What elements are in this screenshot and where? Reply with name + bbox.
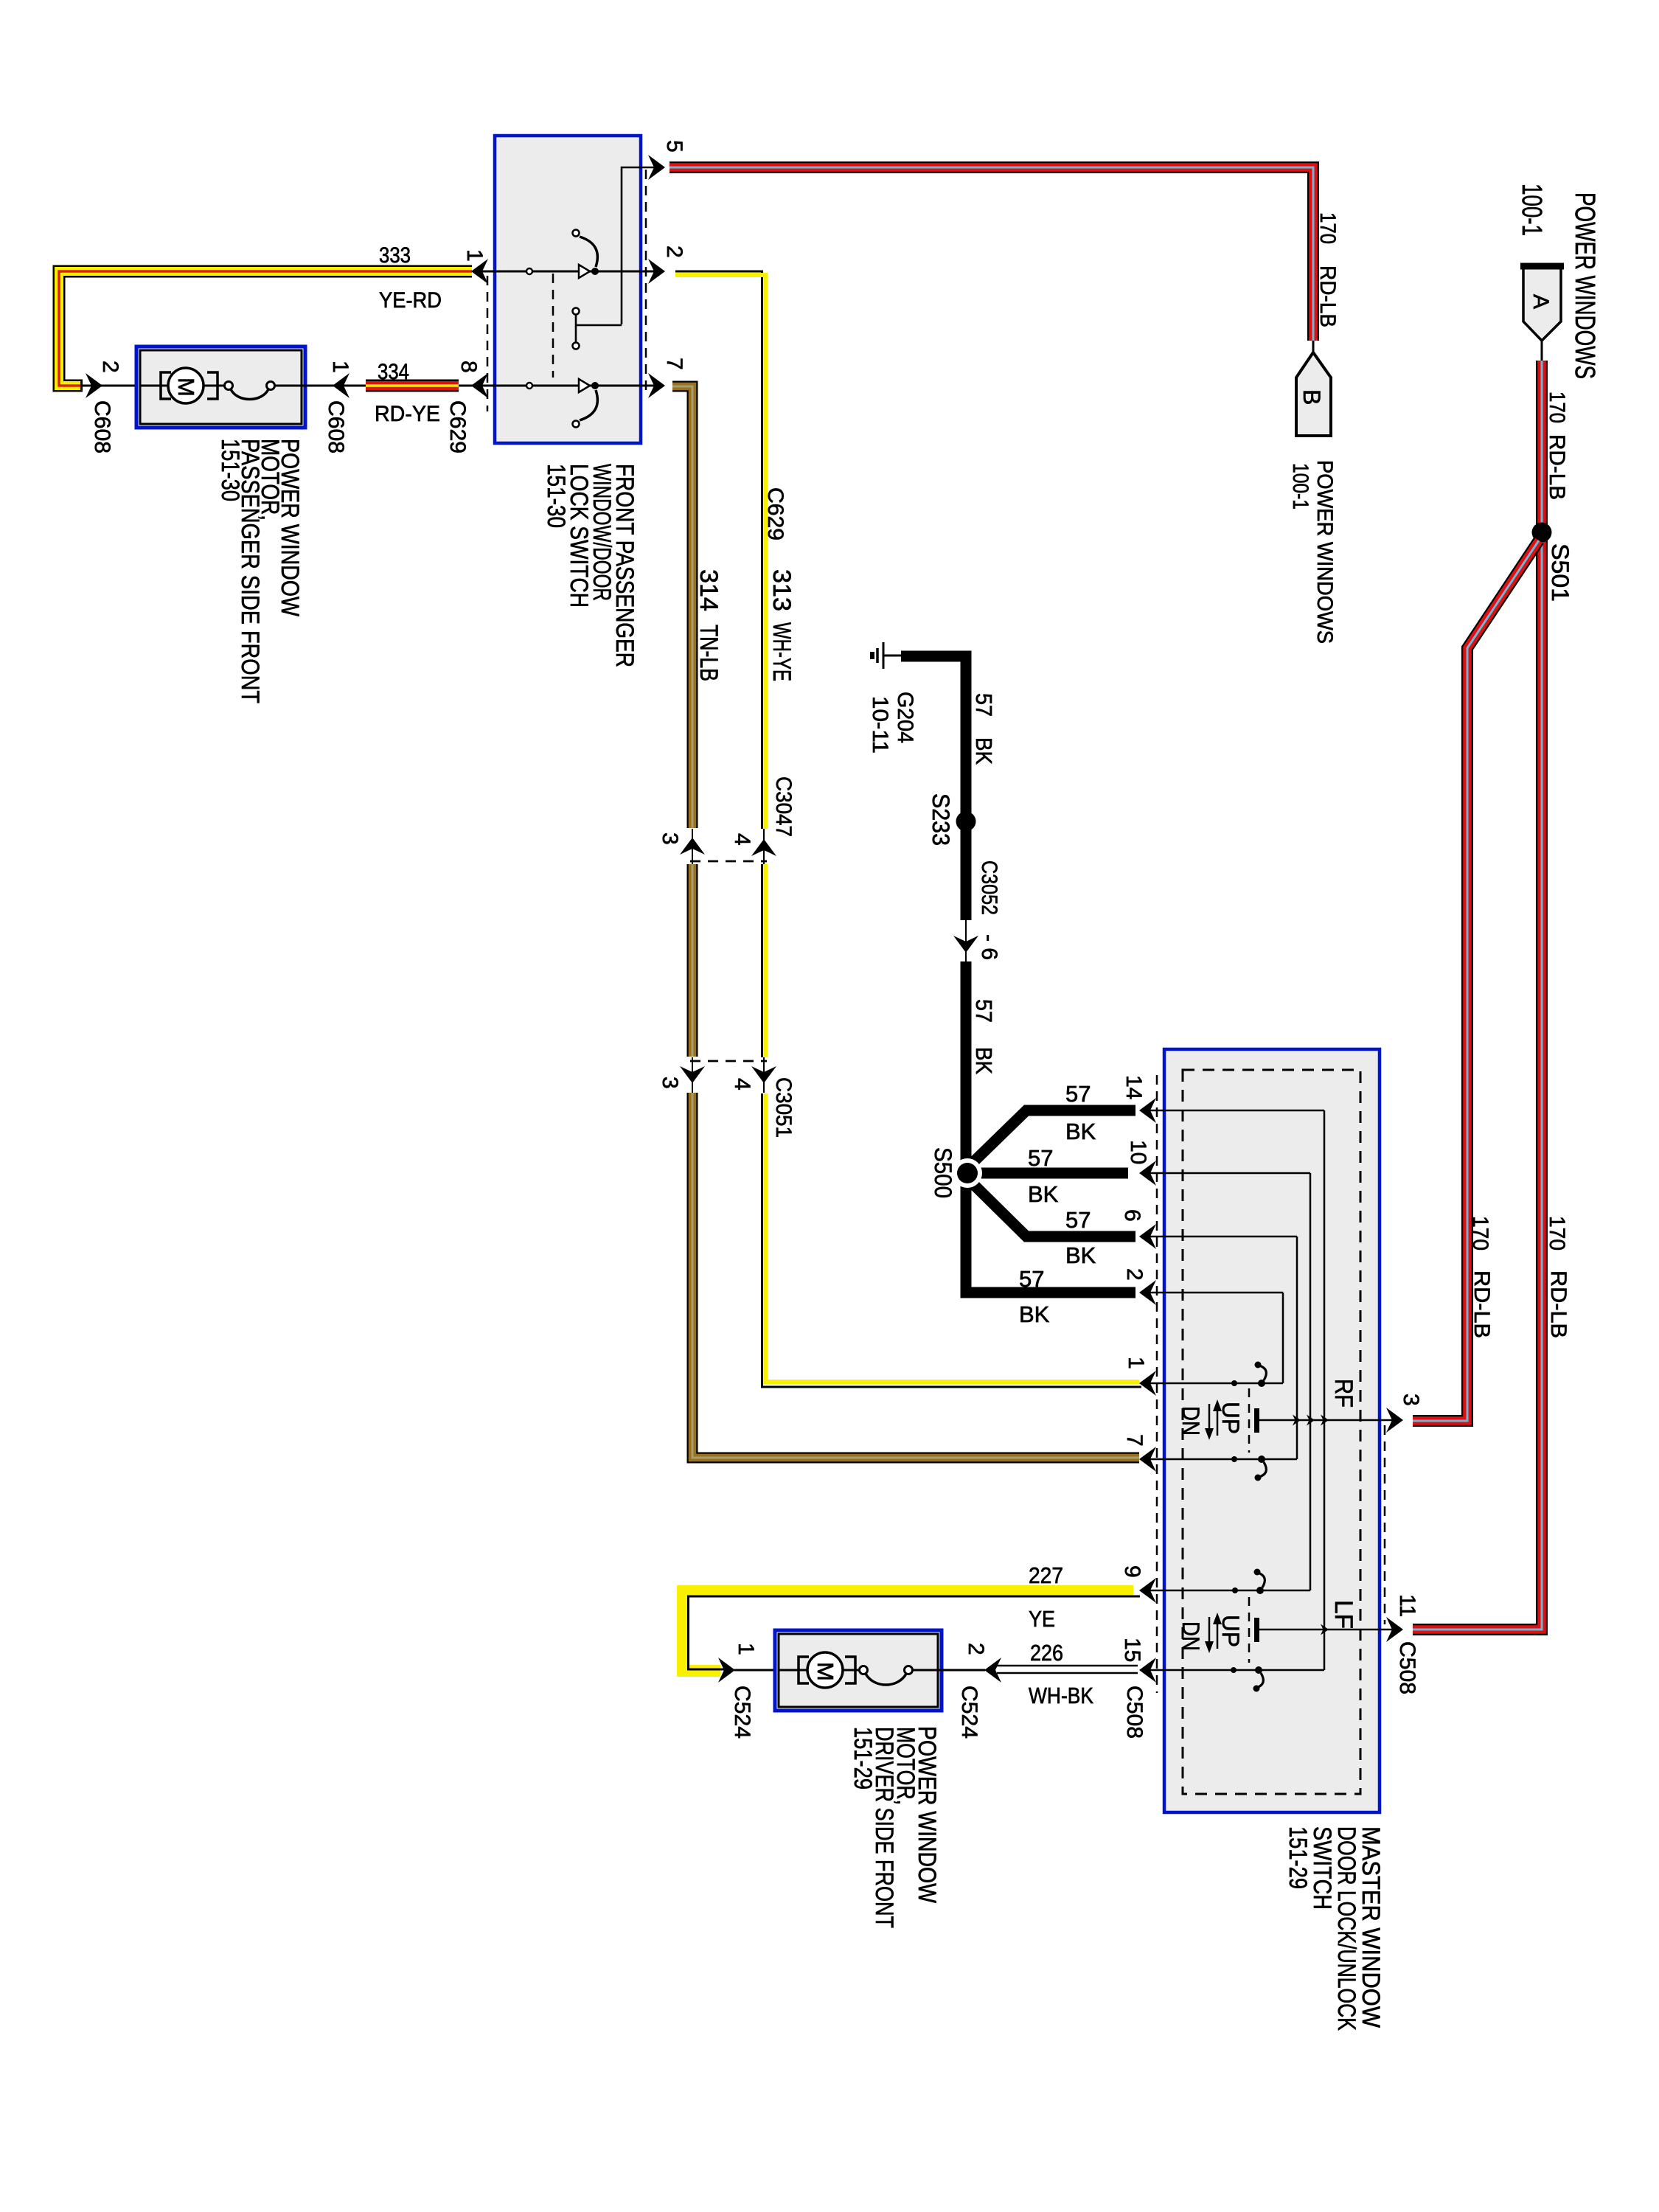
master window door lock/unlock switch box — [1164, 1049, 1380, 1812]
svg-text:1: 1 — [734, 1643, 758, 1655]
pin7 arrow — [1139, 1447, 1156, 1472]
label POWER WINDOWS 100-1 (B) — [1288, 460, 1337, 644]
internal vertical pin10 to row9 — [1310, 1173, 1312, 1590]
wire 314 TN-LB — [672, 386, 1139, 1458]
wire 57 BK to pin6 — [970, 1181, 1135, 1237]
pin14 row line — [1147, 1110, 1324, 1112]
wire row pin1-pin2 — [476, 271, 661, 273]
svg-text:BK: BK — [1028, 1181, 1059, 1207]
RF UP arrow — [1213, 1399, 1222, 1436]
svg-text:314: 314 — [695, 569, 723, 611]
RF row1 contact dot — [1231, 1380, 1237, 1386]
RF row1 arc contact dot — [1255, 1362, 1262, 1368]
RF row7 line — [1147, 1458, 1297, 1461]
splice S233 — [956, 812, 976, 832]
svg-text:C608: C608 — [324, 400, 348, 453]
connector C3047 — [680, 829, 776, 864]
svg-text:UP: UP — [1217, 1615, 1244, 1647]
wire line 334 to C629 pin8 — [459, 385, 487, 387]
connector C629 pin2 arrow — [648, 259, 665, 284]
pin3 arrow — [1386, 1408, 1403, 1433]
svg-text:RD-YE: RD-YE — [375, 402, 440, 426]
motor bracket right driver — [845, 1657, 855, 1683]
connector C3051 — [680, 1057, 776, 1093]
svg-text:10-11: 10-11 — [868, 696, 892, 754]
wiper pivot row1 — [591, 268, 599, 275]
svg-text:15: 15 — [1120, 1638, 1144, 1662]
LF common contact bar — [1254, 1618, 1259, 1642]
wire row line motor to C608 pin1 — [83, 385, 369, 387]
svg-text:170: 170 — [1545, 1216, 1569, 1251]
motor wire segments inside box — [140, 385, 169, 387]
contact circle on row2 — [526, 383, 532, 389]
wire row pin8-pin7 — [476, 385, 661, 387]
svg-text:C608: C608 — [90, 400, 114, 453]
svg-text:226: 226 — [1030, 1640, 1063, 1666]
svg-text:3: 3 — [1399, 1394, 1423, 1406]
svg-text:1: 1 — [1124, 1357, 1148, 1369]
svg-text:100-1: 100-1 — [1288, 463, 1312, 509]
motor brush arc — [231, 389, 268, 400]
svg-text:RD-LB: RD-LB — [1545, 434, 1569, 500]
LF mechanical dashed link — [1248, 1597, 1251, 1663]
svg-text:170: 170 — [1545, 392, 1569, 423]
svg-text:RD-LB: RD-LB — [1315, 265, 1340, 327]
LF switch row9 line — [1147, 1590, 1310, 1592]
switch mechanical dashed link — [552, 274, 554, 378]
svg-text:6: 6 — [1120, 1209, 1144, 1222]
svg-text:9: 9 — [1120, 1565, 1144, 1578]
svg-text:G204: G204 — [893, 692, 917, 743]
label G204 10-11 — [868, 692, 917, 754]
wire 334 RD-YE — [366, 380, 459, 392]
wire 57 BK to pin10 — [970, 1168, 1128, 1179]
motor terminal circles driver — [860, 1666, 868, 1674]
wiper pivot row2 — [591, 382, 599, 389]
svg-text:10: 10 — [1126, 1140, 1150, 1164]
connector B pentagon — [1296, 352, 1331, 436]
svg-text:BK: BK — [1019, 1301, 1050, 1327]
SECTION: top right power feed — [669, 167, 1600, 1630]
connector C629 pin1 arrow — [471, 259, 488, 284]
RF common contact bar — [1254, 1408, 1259, 1433]
passenger motor label block — [216, 439, 304, 703]
svg-text:C508: C508 — [1395, 1641, 1419, 1694]
SECTION: ground and splices — [868, 642, 1135, 1327]
internal vertical pin14 to row15 — [1324, 1110, 1326, 1670]
pin6 row line — [1147, 1236, 1297, 1238]
connector B stem — [1312, 341, 1315, 354]
label 57 BK (upper) — [971, 693, 997, 765]
fp switch label block — [542, 464, 639, 667]
RF row7 contact dot — [1231, 1456, 1237, 1462]
driver motor box — [775, 1630, 942, 1711]
motor M circle driver — [807, 1652, 843, 1688]
svg-text:C508: C508 — [1122, 1686, 1147, 1739]
svg-text:C3047: C3047 — [771, 776, 796, 837]
svg-text:7: 7 — [1122, 1434, 1147, 1447]
connector A pentagon — [1520, 266, 1564, 341]
connector C508 dashed line right — [1384, 1425, 1386, 1624]
LF row9 wiper arc — [1258, 1573, 1265, 1587]
connector C524 pin2 arrow — [984, 1658, 1001, 1683]
wire 333 YE-RD from C629 pin1 to motor pin2 — [59, 271, 472, 386]
driver motor label block — [849, 1726, 941, 1928]
power contact circle lower — [573, 343, 580, 349]
motor terminal circles — [225, 382, 233, 390]
pin14 arrow — [1139, 1098, 1156, 1123]
wire line into driver motor box — [734, 1669, 808, 1672]
svg-text:A: A — [1528, 294, 1553, 309]
connector C608 pin1 arrow — [333, 373, 349, 398]
svg-text:C3052: C3052 — [977, 860, 1001, 915]
LF row15 arc contact dot — [1253, 1686, 1260, 1692]
RF row1 pivot dot — [1258, 1380, 1265, 1387]
svg-text:14: 14 — [1121, 1075, 1146, 1099]
SECTION: driver motor — [683, 1562, 1140, 1928]
svg-text:S233: S233 — [928, 793, 954, 846]
svg-text:5: 5 — [662, 140, 686, 153]
RF feed crossover ticks — [1293, 1415, 1301, 1426]
label 57 BK pin6 — [1065, 1207, 1096, 1268]
pin2 row line — [1147, 1292, 1283, 1294]
svg-text:170: 170 — [1315, 212, 1340, 244]
splice S501 — [1532, 523, 1552, 543]
pin1 arrow — [1139, 1371, 1156, 1396]
svg-text:313: 313 — [768, 569, 796, 611]
contact circle on row1 — [526, 268, 532, 274]
svg-text:BK: BK — [1065, 1119, 1096, 1144]
svg-text:2: 2 — [98, 361, 122, 373]
svg-text:- 6: - 6 — [977, 934, 1001, 960]
RF row7 arc contact dot — [1255, 1475, 1262, 1481]
wire 227 YE pin9 to driver motor — [683, 1591, 1140, 1671]
wire 57 BK C3052 to S500 — [961, 961, 972, 1180]
motor M circle passenger — [168, 368, 204, 403]
motor wire segments inside driver box — [779, 1669, 808, 1672]
connector C608 pin2 arrow — [86, 373, 102, 398]
svg-text:100-1: 100-1 — [1516, 184, 1547, 236]
svg-text:B: B — [1298, 389, 1325, 405]
pin10 arrow — [1139, 1161, 1156, 1186]
pin5 internal line — [622, 167, 661, 324]
SECTION: master switch — [1120, 1049, 1423, 2031]
svg-text:151-29: 151-29 — [849, 1727, 877, 1790]
svg-text:C524: C524 — [730, 1686, 754, 1739]
LF row15 pivot dot — [1255, 1666, 1262, 1674]
connector C629 pin7 arrow — [648, 373, 665, 398]
RF DN arrow — [1205, 1404, 1214, 1440]
svg-text:57: 57 — [1065, 1081, 1091, 1107]
RF row7 pivot dot — [1258, 1455, 1265, 1463]
svg-text:DN: DN — [1178, 1621, 1204, 1651]
splice S500 — [953, 1158, 982, 1188]
SECTION: passenger area — [59, 243, 488, 703]
pin15 arrow — [1139, 1658, 1156, 1683]
svg-text:57: 57 — [971, 693, 997, 717]
connector C629 dashed line left — [487, 276, 489, 411]
svg-text:151-29: 151-29 — [1284, 1826, 1312, 1889]
front passenger window/door lock switch box — [495, 136, 641, 443]
svg-text:333: 333 — [379, 243, 411, 268]
svg-text:WH-BK: WH-BK — [1029, 1683, 1093, 1708]
contact circle lower — [573, 421, 580, 428]
connector C508 dashed line left — [1156, 1075, 1158, 1693]
label 57 BK pin2 — [1019, 1266, 1050, 1327]
wire 313 WH-YE black line — [675, 271, 1141, 1387]
svg-text:POWER WINDOWS: POWER WINDOWS — [1569, 192, 1600, 379]
power contact stack link — [576, 324, 622, 327]
wiper arc row2 — [580, 390, 597, 420]
wire 57 BK to pin2 — [966, 1173, 1135, 1293]
pin9 arrow — [1139, 1578, 1156, 1603]
wire 170 RD-LB from A down to pin11 — [1413, 361, 1542, 1630]
LF row15 wiper arc — [1256, 1673, 1263, 1688]
svg-text:4: 4 — [730, 1078, 754, 1091]
motor brush arc driver — [866, 1674, 906, 1685]
svg-text:57: 57 — [971, 999, 997, 1023]
svg-text:7: 7 — [662, 358, 686, 370]
RF switch row1 line — [1147, 1382, 1283, 1385]
wire 57 BK ground to C3052 — [901, 656, 966, 920]
connector A stem — [1541, 341, 1543, 361]
svg-text:UP: UP — [1217, 1402, 1244, 1434]
svg-text:C524: C524 — [957, 1686, 981, 1739]
svg-text:57: 57 — [1028, 1145, 1053, 1171]
svg-text:1: 1 — [462, 249, 487, 262]
contact circle upper — [573, 230, 580, 237]
RF row7 wiper arc — [1259, 1462, 1266, 1477]
pin11 arrow — [1386, 1617, 1403, 1642]
svg-text:8: 8 — [456, 361, 481, 373]
svg-text:DN: DN — [1178, 1406, 1204, 1436]
label 57 BK pin14 — [1065, 1081, 1096, 1144]
RF mechanical dashed link — [1248, 1388, 1251, 1453]
pin6 arrow — [1139, 1224, 1156, 1249]
wiper arc row1 — [580, 237, 597, 267]
ground symbol G204 — [870, 642, 902, 669]
svg-text:YE-RD: YE-RD — [379, 288, 442, 313]
label 57 BK pin10 — [1028, 1145, 1059, 1207]
master switch label block — [1284, 1826, 1385, 2031]
svg-text:BK: BK — [971, 737, 997, 765]
connector C3052 — [953, 920, 978, 961]
svg-text:C3051: C3051 — [771, 1077, 796, 1138]
svg-text:2: 2 — [1122, 1268, 1147, 1281]
connector C629 pin5 arrow — [648, 155, 665, 180]
svg-text:S501: S501 — [1547, 543, 1573, 602]
wiper triangle row2 — [579, 379, 590, 392]
svg-text:11: 11 — [1395, 1594, 1419, 1617]
LF DN arrow — [1205, 1617, 1214, 1653]
wire 170 RD-LB branch to pin3 — [1413, 540, 1539, 1421]
svg-text:WH-YE: WH-YE — [768, 622, 796, 681]
svg-text:1: 1 — [328, 361, 352, 373]
svg-text:57: 57 — [1019, 1266, 1044, 1292]
wire 57 BK to pin14 — [970, 1110, 1135, 1165]
svg-text:RD-LB: RD-LB — [1470, 1270, 1494, 1338]
motor bracket left driver — [799, 1657, 809, 1683]
connector C629 dashed line right — [645, 170, 647, 394]
svg-text:S500: S500 — [930, 1147, 956, 1198]
svg-text:2: 2 — [662, 246, 686, 258]
LF row15 contact dot — [1231, 1667, 1237, 1673]
LF UP arrow — [1213, 1613, 1222, 1649]
inner dashed outline — [1183, 1070, 1360, 1794]
svg-text:BK: BK — [971, 1047, 997, 1074]
svg-text:57: 57 — [1065, 1207, 1091, 1233]
LF row9 contact dot — [1232, 1587, 1238, 1593]
svg-text:M: M — [173, 378, 199, 397]
LF feed line to pin11 — [1259, 1629, 1399, 1631]
SECTION: fp switch — [476, 136, 1141, 1458]
wiper triangle row1 — [579, 265, 590, 278]
RF row1 wiper arc — [1259, 1366, 1266, 1380]
svg-text:RD-LB: RD-LB — [1546, 1270, 1571, 1338]
motor bracket left — [161, 372, 171, 399]
internal vertical pin6 to row7 — [1296, 1237, 1298, 1459]
svg-text:M: M — [813, 1662, 838, 1681]
RF feed line to pin3 — [1259, 1419, 1399, 1422]
LF feed crossover tick — [1321, 1624, 1329, 1635]
svg-text:170: 170 — [1468, 1216, 1492, 1251]
svg-text:151-30: 151-30 — [542, 464, 570, 528]
connector C629 pin8 arrow — [471, 373, 488, 398]
svg-text:2: 2 — [964, 1643, 988, 1655]
LF row9 arc contact dot — [1254, 1569, 1261, 1576]
svg-text:LF: LF — [1329, 1600, 1357, 1629]
pin2 arrow — [1139, 1280, 1156, 1305]
power contact circle upper — [573, 308, 580, 315]
svg-text:334: 334 — [378, 360, 409, 384]
svg-text:POWER WINDOWS: POWER WINDOWS — [1312, 460, 1337, 644]
svg-text:BK: BK — [1065, 1242, 1096, 1268]
svg-text:227: 227 — [1029, 1562, 1063, 1588]
wire 226 WH-BK — [997, 1666, 1138, 1673]
pin10 row line — [1147, 1172, 1310, 1175]
LF row15 line — [1147, 1669, 1324, 1672]
connector C524 pin1 arrow — [718, 1658, 735, 1683]
wire 170 RD-LB pin5 to connector B — [669, 167, 1313, 341]
wire 313 WH-YE yellow stripe — [675, 275, 1139, 1382]
label 57 BK (lower) — [971, 999, 997, 1074]
internal vertical pin2 to row1 — [1282, 1293, 1284, 1383]
svg-text:151-30: 151-30 — [216, 439, 244, 501]
svg-text:YE: YE — [1029, 1606, 1055, 1632]
passenger motor box — [136, 347, 305, 428]
svg-text:4: 4 — [730, 833, 754, 846]
LF row9 pivot dot — [1256, 1587, 1264, 1594]
svg-text:C629: C629 — [445, 400, 470, 453]
svg-text:RF: RF — [1329, 1379, 1357, 1408]
svg-text:TN-LB: TN-LB — [695, 625, 723, 681]
svg-text:3: 3 — [658, 832, 682, 845]
svg-text:3: 3 — [658, 1077, 682, 1089]
motor bracket right — [207, 372, 218, 399]
